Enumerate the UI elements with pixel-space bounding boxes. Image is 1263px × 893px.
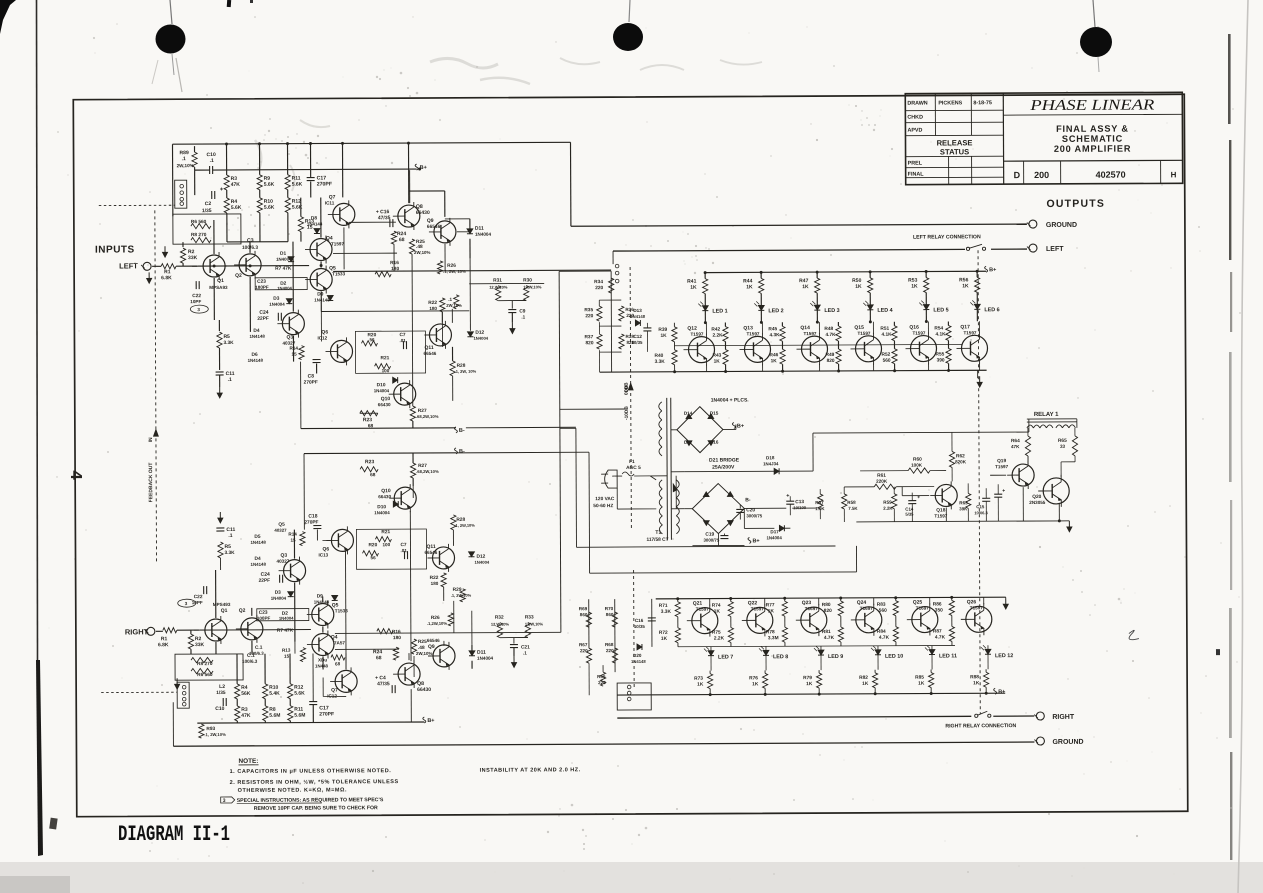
svg-text:R23: R23: [365, 459, 374, 465]
svg-text:FEEDBACK OUT: FEEDBACK OUT: [148, 463, 154, 503]
svg-text:R5: R5: [223, 334, 230, 340]
svg-text:120 VAC: 120 VAC: [595, 496, 615, 502]
svg-text:R23: R23: [363, 417, 372, 423]
svg-text:R37: R37: [584, 334, 593, 340]
svg-text:SCHEMATIC: SCHEMATIC: [1062, 134, 1123, 144]
svg-text:+: +: [220, 187, 224, 193]
svg-text:R88: R88: [970, 674, 979, 680]
svg-text:APVD: APVD: [907, 128, 922, 134]
svg-text:860: 860: [580, 612, 588, 617]
svg-text:1K: 1K: [771, 358, 778, 364]
svg-text:200: 200: [1034, 170, 1049, 180]
svg-text:C15: C15: [976, 504, 985, 509]
svg-text:.1: .1: [210, 158, 214, 164]
svg-text:R14: R14: [289, 346, 298, 351]
svg-text:2W,10%: 2W,10%: [177, 163, 194, 168]
svg-text:RELEASE: RELEASE: [937, 138, 973, 147]
svg-text:GROUND: GROUND: [1052, 739, 1083, 746]
svg-text:2.2K: 2.2K: [883, 506, 893, 511]
svg-text:T1597: T1597: [857, 331, 870, 336]
svg-text:C18: C18: [308, 514, 317, 520]
svg-text:B-: B-: [459, 428, 465, 434]
svg-text:2.2K: 2.2K: [714, 636, 725, 642]
svg-text:820: 820: [824, 608, 832, 614]
svg-text:47K: 47K: [231, 182, 241, 188]
svg-text:R48: R48: [824, 326, 833, 332]
svg-text:R20: R20: [368, 542, 377, 548]
svg-text:C8: C8: [308, 374, 315, 380]
svg-text:MPSA93: MPSA93: [209, 285, 228, 290]
svg-text:66546: 66546: [424, 550, 437, 555]
svg-text:R7 47K: R7 47K: [275, 266, 292, 272]
svg-text:D13: D13: [633, 308, 642, 313]
svg-text:4.7K: 4.7K: [825, 332, 836, 338]
svg-text:560: 560: [883, 358, 891, 364]
svg-text:DIAGRAM II-1: DIAGRAM II-1: [118, 822, 230, 847]
svg-text:1N4004: 1N4004: [477, 656, 494, 661]
svg-text:2N3055: 2N3055: [1029, 500, 1046, 505]
svg-text:R5: R5: [224, 544, 231, 550]
svg-text:39K: 39K: [959, 506, 968, 511]
svg-text:R25: R25: [418, 639, 427, 645]
svg-text:15: 15: [290, 538, 296, 543]
svg-text:R66: R66: [597, 674, 606, 679]
svg-text:270PF: 270PF: [319, 711, 334, 717]
svg-text:REMOVE 10PF CAP. BEING SURE: REMOVE 10PF CAP. BEING SURE TO CHECK FOR: [254, 805, 378, 812]
svg-text:T1597: T1597: [995, 464, 1008, 469]
svg-text:56K: 56K: [241, 691, 251, 697]
svg-text:LED 6: LED 6: [984, 307, 999, 313]
svg-text:270PF: 270PF: [317, 181, 332, 187]
svg-text:220: 220: [580, 648, 588, 653]
svg-text:100/6.3: 100/6.3: [242, 659, 258, 664]
svg-text:1K: 1K: [768, 608, 775, 614]
svg-text:R21: R21: [381, 355, 390, 361]
svg-text:R69: R69: [579, 606, 588, 611]
svg-text:3.3K: 3.3K: [655, 359, 666, 365]
svg-text:B+: B+: [737, 423, 744, 429]
svg-text:.1, 2W,10%: .1, 2W,10%: [204, 732, 226, 737]
svg-text:4.7K: 4.7K: [879, 635, 890, 641]
svg-text:+: +: [1002, 488, 1005, 494]
svg-text:66546: 66546: [424, 351, 437, 356]
svg-text:12,W,10%: 12,W,10%: [523, 284, 542, 289]
svg-text:220: 220: [606, 648, 614, 653]
svg-text:820K: 820K: [955, 459, 967, 464]
svg-text:1K: 1K: [697, 682, 704, 688]
svg-text:100: 100: [382, 542, 390, 547]
svg-text:D17: D17: [684, 440, 693, 445]
svg-text:-10DB: -10DB: [624, 406, 630, 420]
svg-text:1N4148: 1N4148: [249, 334, 265, 339]
svg-text:R55: R55: [936, 351, 945, 357]
svg-text:R63: R63: [959, 500, 968, 505]
svg-text:D15: D15: [710, 411, 719, 416]
svg-text:.1: .1: [521, 315, 525, 320]
svg-text:AGC 5: AGC 5: [626, 465, 641, 471]
svg-text:1N4004: 1N4004: [766, 535, 782, 540]
svg-text:B-: B-: [745, 497, 751, 503]
svg-text:4.3K: 4.3K: [769, 332, 780, 338]
svg-text:R30: R30: [523, 277, 532, 283]
svg-text:C16: C16: [635, 618, 644, 623]
svg-text:1K: 1K: [962, 283, 969, 289]
svg-text:LED 5: LED 5: [933, 307, 948, 313]
svg-text:PHASE LINEAR: PHASE LINEAR: [1029, 97, 1154, 114]
svg-text:7A57: 7A57: [334, 640, 345, 645]
svg-text:R8 270: R8 270: [191, 232, 207, 238]
svg-text:66546: 66546: [427, 224, 441, 230]
svg-text:NOTE:: NOTE:: [239, 758, 259, 765]
svg-text:3.3K: 3.3K: [224, 550, 235, 556]
svg-text:47/35: 47/35: [378, 215, 391, 221]
svg-text:R7 47K: R7 47K: [277, 628, 294, 634]
svg-text:B+: B+: [420, 165, 427, 171]
svg-text:R78: R78: [766, 629, 775, 635]
svg-text:R49: R49: [826, 352, 835, 358]
svg-text:402570: 402570: [1096, 170, 1126, 180]
svg-text:B+: B+: [998, 689, 1005, 695]
svg-text:LED 11: LED 11: [939, 653, 957, 659]
svg-text:R46: R46: [770, 352, 779, 358]
svg-text:3000/75: 3000/75: [703, 538, 719, 543]
svg-text:.01: .01: [399, 338, 406, 343]
svg-text:180: 180: [431, 581, 439, 586]
svg-text:1/35: 1/35: [202, 208, 212, 214]
svg-text:R72: R72: [659, 630, 668, 636]
svg-text:.1: .1: [523, 651, 527, 656]
svg-text:DRAWN: DRAWN: [907, 101, 927, 107]
svg-text:XDu: XDu: [318, 657, 327, 662]
svg-text:180PF: 180PF: [255, 285, 269, 290]
svg-text:.01: .01: [400, 548, 407, 553]
svg-text:1N4004: 1N4004: [269, 302, 285, 307]
svg-text:LEFT RELAY CONNECTION: LEFT RELAY CONNECTION: [913, 234, 981, 240]
svg-text:T1597: T1597: [331, 241, 344, 246]
svg-text:LED 9: LED 9: [828, 654, 843, 660]
svg-text:66546: 66546: [427, 638, 440, 643]
svg-text:3.3K: 3.3K: [223, 340, 234, 346]
svg-text:.1: .1: [228, 377, 232, 383]
svg-text:R59: R59: [883, 500, 892, 505]
svg-text:1N4004: 1N4004: [277, 286, 292, 291]
svg-text:66430: 66430: [416, 210, 430, 216]
svg-text:68: 68: [335, 661, 341, 666]
svg-text:T1597: T1597: [696, 607, 709, 612]
svg-text:1K: 1K: [690, 285, 697, 291]
svg-text:560: 560: [879, 608, 887, 614]
svg-text:R77: R77: [766, 602, 775, 608]
svg-text:D18: D18: [766, 455, 775, 460]
svg-text:T1697: T1697: [916, 606, 929, 611]
svg-text:220: 220: [595, 285, 603, 291]
svg-text:1N4004: 1N4004: [473, 336, 488, 341]
svg-text:LEFT: LEFT: [1046, 246, 1064, 253]
svg-text:100: 100: [382, 368, 390, 373]
svg-text:R80: R80: [822, 602, 831, 608]
svg-text:12,W,10%: 12,W,10%: [489, 285, 508, 290]
svg-text:6.8K: 6.8K: [158, 642, 169, 648]
svg-text:22PF: 22PF: [259, 578, 271, 584]
svg-text:STATUS: STATUS: [940, 147, 969, 156]
svg-text:Q1: Q1: [217, 278, 224, 284]
svg-text:5.6K: 5.6K: [231, 205, 242, 211]
svg-text:PREL: PREL: [908, 161, 923, 167]
svg-text:R83: R83: [877, 602, 886, 608]
svg-text:D17: D17: [770, 529, 779, 534]
svg-text:22PF: 22PF: [257, 316, 269, 322]
svg-text:B+: B+: [752, 538, 759, 544]
svg-text:LED 12: LED 12: [995, 653, 1013, 659]
svg-text:H: H: [1171, 170, 1177, 179]
svg-text:R82: R82: [859, 675, 868, 681]
svg-text:6.8K: 6.8K: [161, 275, 172, 281]
svg-text:56: 56: [371, 555, 377, 560]
svg-text:D14: D14: [684, 411, 693, 416]
svg-text:4.7K: 4.7K: [824, 635, 835, 641]
svg-text:Q9: Q9: [428, 644, 435, 650]
svg-text:4.1K: 4.1K: [935, 331, 946, 337]
svg-text:10PF: 10PF: [190, 299, 201, 304]
svg-text:R58: R58: [847, 500, 856, 505]
svg-text:FINAL ASSY &: FINAL ASSY &: [1056, 124, 1129, 134]
svg-text:OTHERWISE NOTED. K=KΩ, M=: OTHERWISE NOTED. K=KΩ, M=MΩ.: [238, 787, 347, 794]
svg-text:5.6M: 5.6M: [269, 713, 280, 719]
svg-text:7.5K: 7.5K: [848, 506, 858, 511]
svg-text:R68: R68: [605, 642, 614, 647]
svg-text:T1597: T1597: [803, 331, 816, 336]
svg-text:R85: R85: [915, 675, 924, 681]
svg-text:R33: R33: [525, 614, 534, 620]
svg-text:180: 180: [393, 635, 401, 641]
svg-text:1N4148: 1N4148: [307, 221, 323, 226]
svg-text:4.7K: 4.7K: [935, 634, 946, 640]
svg-text:R76: R76: [749, 675, 758, 681]
svg-text:50-60 HZ: 50-60 HZ: [593, 503, 613, 509]
svg-text:RIGHT: RIGHT: [1052, 714, 1075, 721]
svg-text:220K: 220K: [876, 479, 888, 484]
svg-text:12,W,10%: 12,W,10%: [525, 621, 544, 626]
svg-text:2W,10%: 2W,10%: [414, 250, 430, 255]
svg-text:R87: R87: [933, 628, 942, 634]
svg-text:390: 390: [937, 357, 945, 363]
svg-text:T1597: T1597: [751, 606, 764, 611]
svg-text:1N4004: 1N4004: [374, 510, 390, 515]
svg-text:INSTABILITY AT 20K AND 2.0: INSTABILITY AT 20K AND 2.0 HZ.: [480, 767, 581, 773]
svg-text:R35: R35: [584, 307, 593, 313]
svg-text:1N4148: 1N4148: [631, 659, 646, 664]
svg-text:R16: R16: [392, 629, 401, 635]
svg-text:1N4004: 1N4004: [374, 388, 390, 393]
svg-text:T1597: T1597: [963, 330, 976, 335]
svg-text:1K: 1K: [973, 680, 980, 686]
svg-text:.1: .1: [182, 156, 186, 162]
svg-text:.1: .1: [448, 297, 452, 302]
svg-text:200 AMPLIFIER: 200 AMPLIFIER: [1054, 144, 1132, 154]
svg-text:LEFT: LEFT: [119, 261, 138, 270]
svg-text:IC12: IC12: [317, 335, 327, 340]
svg-text:47K: 47K: [241, 713, 251, 719]
svg-text:Q2: Q2: [235, 273, 242, 279]
svg-text:RIGHT: RIGHT: [125, 627, 149, 636]
svg-text:1N4004 + PLCS.: 1N4004 + PLCS.: [711, 397, 750, 403]
svg-text:L2: L2: [219, 684, 225, 690]
svg-text:1N4148: 1N4148: [250, 540, 266, 545]
svg-text:C24: C24: [259, 310, 268, 316]
svg-text:CHKD: CHKD: [907, 115, 923, 121]
svg-text:1. CAPACITORS IN μF UNLESS: 1. CAPACITORS IN μF UNLESS OTHERWISE NOT…: [230, 768, 392, 775]
svg-text:C24: C24: [261, 572, 270, 578]
svg-text:5.6K: 5.6K: [294, 691, 305, 697]
svg-text:FINAL: FINAL: [908, 172, 925, 178]
svg-text:RIGHT RELAY CONNECTION: RIGHT RELAY CONNECTION: [945, 723, 1016, 729]
svg-text:OUTPUTS: OUTPUTS: [1046, 198, 1105, 210]
svg-text:33K: 33K: [195, 642, 205, 648]
svg-text:.1, 2W, 10%: .1, 2W, 10%: [443, 269, 466, 274]
svg-text:R79: R79: [803, 675, 812, 681]
svg-text:15: 15: [292, 352, 298, 357]
svg-text:15: 15: [284, 654, 290, 659]
svg-text:66430: 66430: [378, 402, 391, 407]
svg-text:40327: 40327: [274, 528, 287, 533]
svg-text:D21 BRIDGE: D21 BRIDGE: [709, 457, 740, 463]
svg-text:1N4004: 1N4004: [279, 616, 294, 621]
svg-text:R57: R57: [815, 500, 824, 505]
svg-text:+: +: [786, 493, 789, 499]
svg-text:LED 7: LED 7: [718, 654, 733, 660]
svg-text:T1597: T1597: [746, 331, 759, 336]
svg-text:IN: IN: [148, 437, 154, 442]
svg-text:R81: R81: [822, 629, 831, 635]
svg-text:C2: C2: [205, 201, 212, 207]
svg-text:66430: 66430: [378, 494, 391, 499]
svg-text:47K: 47K: [1011, 444, 1020, 449]
svg-text:1N4004: 1N4004: [271, 596, 287, 601]
svg-text:B+: B+: [427, 718, 434, 724]
svg-text:1K: 1K: [806, 681, 813, 687]
svg-text:R21: R21: [381, 529, 390, 535]
svg-text:3.3K: 3.3K: [661, 609, 672, 615]
svg-text:PICKENS: PICKENS: [938, 100, 962, 106]
svg-text:.1,2W,10%: .1,2W,10%: [427, 621, 448, 626]
svg-text:LED 2: LED 2: [768, 308, 783, 314]
svg-text:10/35: 10/35: [631, 340, 643, 345]
svg-text:5.6K: 5.6K: [264, 182, 275, 188]
svg-text:1N4148: 1N4148: [248, 358, 264, 363]
svg-text:T1597: T1597: [970, 605, 983, 610]
svg-text:IC13: IC13: [318, 552, 328, 557]
svg-text:1K: 1K: [714, 359, 721, 365]
svg-text:5/35: 5/35: [905, 512, 914, 517]
svg-text:12,W,10%: 12,W,10%: [491, 622, 510, 627]
svg-text:5.4K: 5.4K: [269, 691, 280, 697]
svg-text:1N4004: 1N4004: [475, 560, 490, 565]
svg-text:R74: R74: [712, 603, 721, 609]
svg-text:LED 4: LED 4: [877, 308, 892, 314]
svg-text:T1533: T1533: [332, 271, 345, 276]
svg-text:B+: B+: [989, 267, 996, 273]
svg-text:C12: C12: [633, 334, 642, 339]
svg-text:10/35: 10/35: [634, 624, 646, 629]
svg-text:1N4J34: 1N4J34: [763, 461, 779, 466]
svg-text:860: 860: [606, 612, 614, 617]
svg-text:R40: R40: [655, 353, 664, 359]
svg-text:.68,2W,10%: .68,2W,10%: [416, 414, 439, 419]
svg-text:.1: .1: [228, 533, 232, 539]
svg-text:R84: R84: [877, 629, 886, 635]
svg-text:R67: R67: [579, 642, 588, 647]
svg-text:F1: F1: [629, 459, 635, 465]
svg-text:1N448: 1N448: [315, 663, 329, 668]
svg-text:66430: 66430: [417, 687, 431, 693]
svg-text:Q1: Q1: [221, 608, 228, 614]
svg-text:RELAY 1: RELAY 1: [1034, 412, 1059, 418]
svg-text:R14: R14: [288, 532, 297, 537]
svg-text:8-18-75: 8-18-75: [973, 100, 992, 106]
svg-text:0DB: 0DB: [624, 382, 630, 392]
svg-text:R73: R73: [694, 676, 703, 682]
svg-text:1N4148: 1N4148: [630, 314, 645, 319]
svg-text:B-: B-: [459, 449, 465, 455]
svg-text:117/58 CT: 117/58 CT: [646, 537, 668, 543]
svg-text:LED 8: LED 8: [773, 654, 788, 660]
svg-text:.1, 2W, 10%: .1, 2W, 10%: [455, 369, 477, 374]
svg-text:1K: 1K: [918, 681, 925, 687]
svg-text:INPUTS: INPUTS: [95, 244, 135, 255]
svg-text:IC11: IC11: [325, 200, 335, 205]
svg-text:R6 560: R6 560: [197, 672, 213, 678]
svg-text:270PF: 270PF: [304, 380, 318, 386]
svg-text:T1697: T1697: [805, 606, 818, 611]
svg-text:1K: 1K: [752, 681, 759, 687]
svg-text:R70: R70: [605, 606, 614, 611]
svg-text:R13: R13: [282, 648, 291, 653]
svg-text:R75: R75: [712, 630, 721, 636]
svg-text:R45: R45: [768, 326, 777, 332]
svg-text:180: 180: [429, 306, 437, 311]
svg-text:R71: R71: [659, 603, 668, 609]
svg-text:LED 1: LED 1: [712, 309, 727, 315]
svg-text:T1597: T1597: [690, 332, 703, 337]
svg-text:1K: 1K: [911, 284, 918, 290]
svg-text:Q2: Q2: [239, 608, 246, 614]
svg-text:R8 270: R8 270: [197, 661, 213, 667]
svg-text:1N4004: 1N4004: [475, 232, 492, 237]
svg-text:LED 3: LED 3: [824, 308, 839, 314]
svg-text:R42: R42: [711, 327, 720, 333]
svg-text:1K: 1K: [862, 681, 869, 687]
svg-text:3: 3: [223, 798, 226, 804]
svg-text:68: 68: [370, 472, 376, 478]
svg-text:100K: 100K: [911, 463, 923, 468]
svg-text:IC12: IC12: [327, 693, 337, 698]
svg-text:D: D: [1014, 170, 1021, 180]
svg-text:68: 68: [399, 237, 405, 243]
svg-text:R16: R16: [390, 260, 399, 266]
svg-text:1K: 1K: [855, 284, 862, 290]
svg-text:1K: 1K: [802, 284, 809, 290]
svg-text:270PF: 270PF: [304, 520, 318, 526]
svg-text:1K: 1K: [660, 333, 667, 339]
svg-text:2. RESISTORS IN OHM, ½W, *5%: 2. RESISTORS IN OHM, ½W, *5% TOLERANCE U…: [230, 778, 399, 786]
svg-text:T1597: T1597: [934, 513, 947, 518]
svg-text:R54: R54: [934, 325, 943, 331]
svg-text:2.2K: 2.2K: [712, 333, 723, 339]
svg-text:33: 33: [1060, 444, 1066, 449]
svg-text:68: 68: [376, 655, 382, 661]
svg-text:47/35: 47/35: [377, 681, 390, 687]
svg-text:5.6M: 5.6M: [294, 713, 305, 719]
